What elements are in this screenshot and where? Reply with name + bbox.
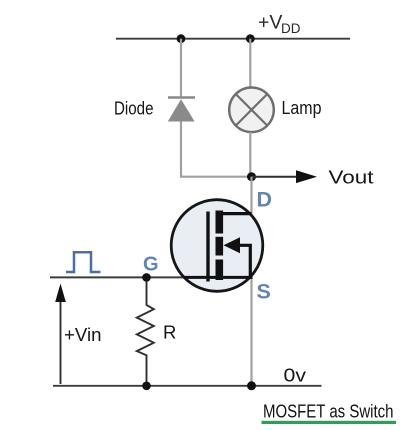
wire top rail +VDD bbox=[116, 38, 350, 40]
transistor Q1 channel bottom bar bbox=[216, 260, 224, 281]
svg-text:S: S bbox=[257, 280, 271, 304]
arrow +Vin bbox=[60, 295, 62, 384]
wire Vout arrow bbox=[252, 176, 299, 178]
svg-text:Vout: Vout bbox=[329, 166, 374, 187]
waveform input pulse bbox=[66, 252, 101, 272]
node Vout junction bbox=[247, 172, 256, 181]
svg-text:+V: +V bbox=[258, 12, 282, 34]
svg-text:+Vin: +Vin bbox=[64, 324, 102, 345]
node junction bottom rail / source bbox=[247, 381, 256, 390]
diode cathode bar bbox=[168, 96, 195, 99]
transistor Q1 source lead inside bbox=[184, 276, 253, 279]
node gate/resistor junction bbox=[142, 273, 151, 282]
lamp L1 bbox=[229, 88, 274, 133]
node junction top rail / diode branch bbox=[177, 34, 186, 43]
svg-text:Lamp: Lamp bbox=[282, 97, 322, 118]
wire lamp upper bbox=[249, 39, 251, 88]
green underline bbox=[262, 421, 397, 424]
wire lamp lower bbox=[249, 132, 251, 177]
svg-text:0v: 0v bbox=[284, 365, 307, 386]
svg-text:R: R bbox=[163, 322, 176, 343]
wire drain bbox=[250, 177, 252, 214]
svg-text:Diode: Diode bbox=[114, 98, 154, 119]
node junction top rail / lamp branch bbox=[246, 34, 255, 43]
wire diode branch lower bbox=[181, 122, 249, 177]
svg-text:MOSFET as Switch: MOSFET as Switch bbox=[263, 401, 394, 421]
transistor Q1 drain lead bbox=[223, 212, 252, 215]
transistor Q1 channel middle bar bbox=[216, 237, 224, 256]
wire bottom rail 0v bbox=[53, 385, 322, 387]
wire diode branch upper bbox=[180, 39, 182, 97]
node junction bottom rail / resistor bbox=[142, 382, 151, 391]
wire source to 0v bbox=[250, 277, 252, 385]
transistor Q1 gate bar bbox=[206, 212, 209, 282]
diode triangle bbox=[168, 99, 195, 121]
resistor R bbox=[137, 281, 154, 386]
svg-text:DD: DD bbox=[281, 21, 301, 36]
wire gate lead bbox=[50, 276, 188, 278]
svg-text:D: D bbox=[257, 188, 273, 212]
transistor Q1 body arrow bbox=[224, 237, 241, 253]
transistor Q1 MOSFET body circle bbox=[171, 200, 263, 292]
svg-text:G: G bbox=[143, 253, 159, 275]
transistor Q1 channel top bar bbox=[216, 211, 224, 234]
